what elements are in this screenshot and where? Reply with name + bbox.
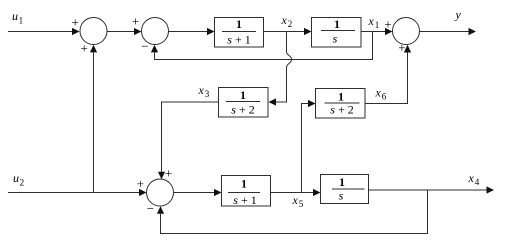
svg-text:3: 3 bbox=[205, 89, 210, 99]
summing junction S4 bbox=[147, 179, 174, 206]
svg-text:u: u bbox=[12, 9, 18, 23]
wire from node x2 down with hop over feedback line into block G3 bbox=[276, 32, 292, 103]
block G6 transfer 1/s bbox=[321, 175, 369, 204]
block G2 transfer 1/s bbox=[312, 18, 362, 48]
svg-text:1: 1 bbox=[334, 17, 340, 31]
wire u2 input bbox=[8, 192, 139, 194]
node arrowhead left into block G3 right edge bbox=[269, 98, 277, 105]
svg-text:x: x bbox=[368, 14, 375, 28]
svg-text:1: 1 bbox=[240, 88, 246, 102]
svg-text:+: + bbox=[384, 17, 391, 32]
node arrowhead up into S1 bottom bbox=[90, 45, 97, 53]
wire G1 to G2 with node x2 bbox=[264, 31, 305, 33]
summing junction S1 bbox=[80, 18, 107, 45]
svg-text:−: − bbox=[147, 201, 154, 216]
block G5 transfer 1/(s+1) bbox=[222, 176, 271, 207]
svg-text:x: x bbox=[375, 86, 382, 100]
svg-text:u: u bbox=[13, 171, 19, 185]
svg-text:+: + bbox=[132, 14, 139, 29]
node u1 input arrowhead into summer S1 bbox=[72, 28, 80, 35]
svg-text:1: 1 bbox=[339, 175, 345, 189]
summing junction S3 bbox=[393, 18, 420, 45]
svg-text:s: s bbox=[333, 32, 338, 46]
wire G4 output right and up to S3 bottom with node x6 bbox=[365, 53, 408, 104]
svg-text:y: y bbox=[455, 8, 462, 22]
wire feedback from node x1 down and left to S2 bbox=[155, 32, 373, 60]
block G3 transfer 1/(s+2) bbox=[219, 88, 269, 118]
value G6 fraction bar bbox=[332, 188, 365, 190]
value G4 fraction bar bbox=[325, 102, 360, 104]
svg-text:x: x bbox=[292, 193, 299, 207]
wire from node x5 up and right into block G4 bbox=[302, 104, 309, 193]
svg-text:s + 2: s + 2 bbox=[330, 103, 353, 117]
svg-text:s + 1: s + 1 bbox=[233, 193, 256, 207]
node arrowhead into block G1 bbox=[207, 28, 215, 35]
wire feedback from x4 line down, left and up into S4 bottom bbox=[161, 190, 428, 234]
svg-text:2: 2 bbox=[20, 178, 25, 188]
svg-text:1: 1 bbox=[338, 90, 344, 104]
node arrowhead into summer S4 bbox=[139, 189, 147, 196]
value G5 fraction bar bbox=[228, 192, 260, 194]
wire from u2 line junction up into S1 bottom bbox=[93, 53, 95, 193]
svg-text:x: x bbox=[281, 13, 288, 27]
value G1 fraction bar bbox=[222, 31, 256, 33]
svg-text:+: + bbox=[81, 41, 88, 56]
node arrowhead into summer S2 bbox=[134, 28, 142, 35]
wire G2 to S3 with node x1 bbox=[361, 31, 385, 33]
wire G6 to output x4 bbox=[369, 189, 487, 191]
svg-text:1: 1 bbox=[19, 16, 24, 26]
svg-text:x: x bbox=[468, 171, 475, 185]
node arrowhead into block G5 bbox=[214, 189, 222, 196]
node arrowhead into block G4 left edge bbox=[308, 100, 316, 107]
svg-text:+: + bbox=[72, 14, 79, 29]
value G2 fraction bar bbox=[321, 30, 355, 32]
block G4 transfer 1/(s+2) bbox=[316, 89, 366, 119]
wire S3 to output y bbox=[420, 31, 469, 33]
wire S1 to S2 bbox=[107, 31, 134, 33]
wire S4 to block G5 bbox=[174, 192, 215, 194]
node arrowhead into block G2 bbox=[304, 28, 312, 35]
svg-text:1: 1 bbox=[241, 177, 247, 191]
svg-text:s: s bbox=[339, 189, 344, 203]
summing junction S2 bbox=[142, 18, 169, 45]
svg-text:+: + bbox=[398, 40, 405, 55]
wire S2 to block G1 bbox=[169, 31, 208, 33]
svg-text:2: 2 bbox=[288, 19, 293, 29]
svg-text:5: 5 bbox=[299, 199, 304, 209]
node arrowhead up into S4 bottom bbox=[157, 206, 164, 214]
svg-text:+: + bbox=[137, 176, 144, 191]
block G1 transfer 1/(s+1) bbox=[215, 18, 264, 48]
svg-text:s + 2: s + 2 bbox=[231, 103, 254, 117]
wire G3 output left and down to S4 top bbox=[162, 102, 219, 172]
node arrowhead into summer S3 bbox=[385, 28, 393, 35]
wire G5 to G6 with node x5 bbox=[271, 192, 314, 194]
node arrowhead up into S2 bottom bbox=[151, 45, 158, 53]
svg-text:x: x bbox=[198, 83, 205, 97]
svg-text:1: 1 bbox=[236, 17, 242, 31]
value G3 fraction bar bbox=[226, 101, 260, 103]
svg-text:4: 4 bbox=[475, 177, 480, 187]
wire u1 input bbox=[8, 31, 73, 33]
svg-text:s + 1: s + 1 bbox=[227, 33, 250, 47]
node output y arrowhead bbox=[469, 28, 477, 35]
svg-text:+: + bbox=[165, 165, 172, 180]
svg-text:−: − bbox=[141, 38, 148, 53]
node arrowhead down into S4 top bbox=[158, 172, 165, 180]
svg-text:1: 1 bbox=[375, 20, 380, 30]
node arrowhead into block G6 bbox=[313, 189, 321, 196]
svg-text:6: 6 bbox=[382, 92, 387, 102]
node arrowhead up into S3 bottom bbox=[404, 45, 411, 53]
node output x4 arrowhead bbox=[487, 186, 495, 193]
